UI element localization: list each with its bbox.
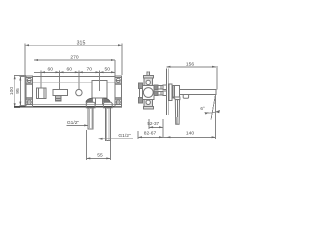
svg-text:156: 156 (186, 61, 194, 67)
svg-text:G1/2": G1/2" (118, 133, 131, 139)
svg-text:60: 60 (47, 67, 53, 73)
svg-text:G1/2": G1/2" (67, 120, 80, 126)
svg-text:82-67: 82-67 (144, 131, 157, 137)
svg-text:6°: 6° (200, 106, 205, 111)
svg-text:270: 270 (70, 54, 78, 60)
svg-text:60: 60 (66, 67, 72, 73)
svg-text:95: 95 (15, 88, 21, 94)
svg-text:100: 100 (9, 87, 15, 95)
svg-text:70: 70 (86, 67, 92, 73)
svg-text:52-37: 52-37 (147, 121, 159, 126)
svg-text:55: 55 (97, 152, 103, 158)
svg-text:50: 50 (104, 67, 110, 73)
svg-text:140: 140 (186, 131, 194, 137)
svg-text:315: 315 (77, 40, 86, 46)
